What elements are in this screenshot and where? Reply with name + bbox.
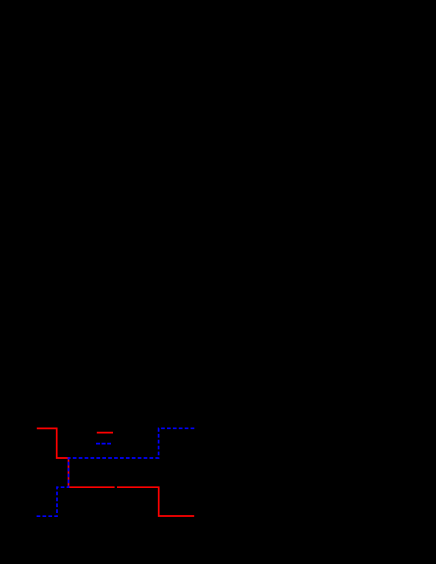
legend key red solid [97, 432, 113, 434]
red solid step curve [37, 428, 194, 516]
legend key blue dashed [96, 443, 111, 445]
blue dashed step curve [37, 428, 195, 516]
